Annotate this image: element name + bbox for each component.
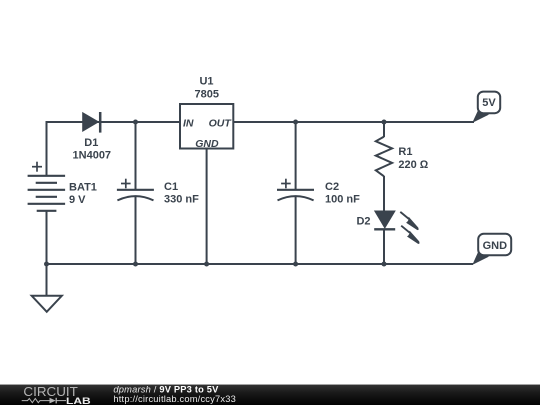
svg-text:LAB: LAB [66, 396, 91, 405]
wire ground stub [46, 264, 48, 296]
svg-text:D1: D1 [84, 137, 98, 149]
wire bottom rail [47, 263, 474, 265]
wire top rail to R1 top [383, 122, 385, 137]
wire battery negative to bottom rail [46, 210, 48, 264]
svg-text:100 nF: 100 nF [325, 193, 360, 205]
wire top rail from battery corner to 5V flag [47, 122, 475, 176]
node junction U1 OUT / C2 [293, 120, 298, 125]
svg-text:U1: U1 [199, 76, 213, 88]
footer bar [0, 384, 540, 405]
regulator U1 7805 box [180, 104, 233, 150]
svg-text:GND: GND [483, 240, 508, 252]
svg-text:220 Ω: 220 Ω [398, 159, 428, 171]
svg-text:D2: D2 [356, 216, 370, 228]
svg-text:C1: C1 [164, 181, 178, 193]
svg-text:C2: C2 [325, 181, 339, 193]
logo squiggle [22, 398, 66, 404]
battery BAT1 [28, 162, 66, 211]
svg-text:1N4007: 1N4007 [73, 149, 112, 161]
node junction D2 / ground rail [382, 262, 387, 267]
wire top rail to C1 top [135, 122, 137, 189]
svg-text:GND: GND [195, 138, 219, 150]
svg-text:OUT: OUT [209, 117, 233, 129]
capacitor C1 [117, 179, 154, 201]
svg-text:7805: 7805 [195, 89, 219, 101]
node junction D1 cathode / C1 / U1 IN [133, 120, 138, 125]
node GND flag [472, 234, 511, 265]
wire D2 cathode to bottom rail [383, 229, 385, 264]
resistor R1 [376, 137, 392, 177]
node junction U1 GND / ground rail [204, 262, 209, 267]
node junction C1 / ground rail [133, 262, 138, 267]
svg-text:BAT1: BAT1 [69, 181, 97, 193]
wire C2 bottom to bottom rail [295, 197, 297, 265]
svg-text:IN: IN [183, 117, 194, 129]
LED D2 [374, 211, 419, 244]
D2 light emission arrows [400, 212, 419, 244]
capacitor C2 [277, 179, 314, 201]
node junction battery negative / ground [44, 262, 49, 267]
svg-text:330 nF: 330 nF [164, 193, 199, 205]
wire U1 GND pin to bottom rail [206, 148, 208, 264]
node junction 5V rail / R1 [382, 120, 387, 125]
wire R1 bottom to D2 anode [383, 176, 385, 212]
wire C1 bottom to bottom rail [135, 197, 137, 265]
svg-text:9 V: 9 V [69, 194, 86, 206]
svg-text:http://circuitlab.com/ccy7x33: http://circuitlab.com/ccy7x33 [113, 394, 236, 404]
diode D1 [83, 112, 100, 133]
ground [32, 296, 62, 312]
wire top rail to C2 top [295, 122, 297, 189]
node 5V flag [472, 92, 500, 123]
node junction C2 / ground rail [293, 262, 298, 267]
svg-text:R1: R1 [398, 146, 412, 158]
svg-text:5V: 5V [482, 97, 496, 109]
